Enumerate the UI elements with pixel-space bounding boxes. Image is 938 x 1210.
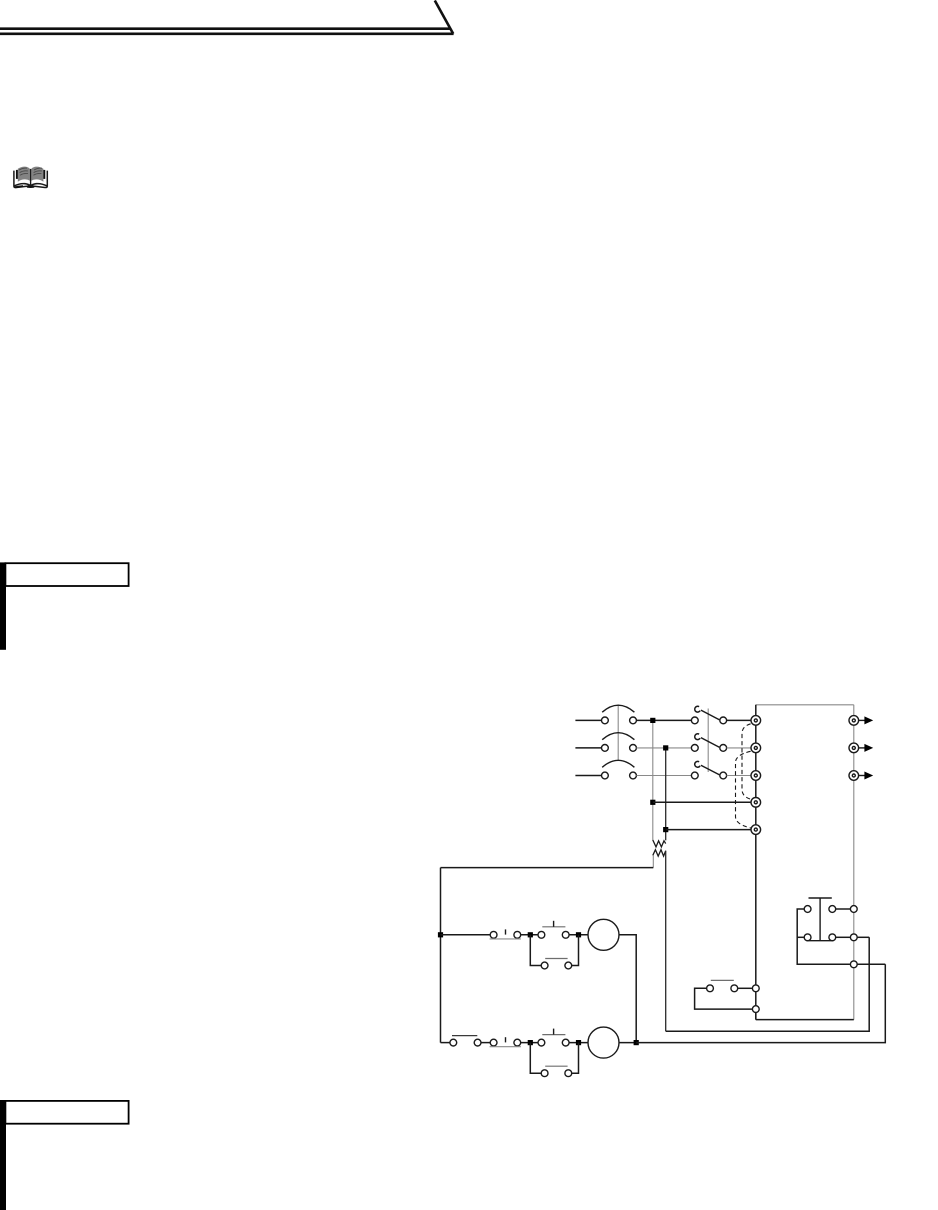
- junction MC1 holding right: [576, 932, 581, 937]
- terminal S1/L21: [751, 825, 761, 835]
- contact MC2-b interlock (upper): [490, 929, 521, 939]
- junction bus A row1: [650, 718, 655, 723]
- output terminal U: [849, 716, 859, 726]
- wire bus A to terminal R1/L11: [653, 801, 751, 803]
- MCCB pole 3: [602, 760, 637, 779]
- junction bus B row5: [663, 827, 668, 832]
- wire CS middle to bus B riser: [857, 936, 869, 938]
- terminal CS middle: [850, 934, 857, 941]
- section heading box 1: [5, 563, 128, 586]
- wire MCCB to MC pole 3: [636, 775, 691, 777]
- MC2 branch corner: [441, 1042, 450, 1044]
- contact MC1 holding: [541, 959, 572, 969]
- header double rule: [0, 29, 454, 34]
- wire selector row2 left: [797, 936, 804, 938]
- MCCB pole 1: [602, 705, 637, 724]
- junction MC1 holding left: [528, 932, 533, 937]
- wire selector common loop: [797, 909, 850, 964]
- wire MC to terminal R/L1: [727, 719, 752, 721]
- selector switch CS actuator: [807, 898, 834, 941]
- inverter box left edge: [755, 705, 757, 1020]
- coil MC1: [588, 919, 619, 950]
- pushbutton start MC2: [538, 1029, 569, 1046]
- MC contact pole 2: [691, 734, 726, 752]
- MC2 holding branch left leg: [530, 1043, 541, 1074]
- junction bus A row4: [650, 800, 655, 805]
- MC contact pole 1: [691, 706, 726, 724]
- wire between lower contacts: [481, 1042, 490, 1044]
- terminal SD: [752, 1006, 759, 1013]
- output arrow V: [858, 744, 873, 752]
- output terminal W: [849, 771, 859, 781]
- MC1 holding branch left leg: [530, 935, 541, 966]
- terminal R1/L11: [751, 798, 761, 808]
- bus B vertical (S1 feed): [665, 748, 667, 840]
- junction bus B row2: [663, 745, 668, 750]
- bus B below twist: [665, 851, 667, 1031]
- MC2 holding branch right leg: [572, 1043, 579, 1074]
- junction MC2 holding right: [576, 1040, 581, 1045]
- terminal CS lower: [850, 961, 857, 968]
- wire MC to terminal T/L3: [727, 775, 752, 777]
- selector switch CS contacts: [804, 906, 836, 941]
- terminal CS upper: [850, 906, 857, 913]
- bus A vertical (R1 feed): [652, 720, 654, 840]
- wire to junction: [521, 934, 538, 936]
- wire bus B to selector middle: [666, 937, 870, 1031]
- junction coils common: [634, 1040, 639, 1045]
- contact MC1-a (lower): [450, 1036, 481, 1046]
- inverter box right edge: [853, 705, 855, 1020]
- wire control feed vertical: [440, 868, 442, 1043]
- wire to MC1 coil: [569, 934, 588, 936]
- section heading bar 2 (black side bar): [0, 1100, 6, 1210]
- wire coils common to CS selector: [636, 964, 885, 1042]
- output terminal V: [849, 743, 859, 753]
- section heading bar 1 (black side bar): [0, 562, 6, 649]
- MC contact pole 3: [691, 761, 726, 779]
- wire CS lower to common riser: [857, 963, 885, 965]
- wire to lower junction: [521, 1042, 538, 1044]
- wire MC2 coil output: [619, 1042, 636, 1044]
- bus A below twist: [652, 855, 654, 867]
- wire MC to terminal S/L2: [727, 747, 752, 749]
- pushbutton start MC1: [538, 921, 569, 938]
- wire MCCB to MC pole 1: [636, 719, 691, 721]
- MCCB linkage: [617, 705, 619, 761]
- inverter box top edge: [756, 704, 854, 706]
- section heading box 2: [5, 1101, 128, 1124]
- twisted wire symbol on bus A/B: [653, 840, 666, 856]
- wire control feed horizontal: [441, 867, 654, 869]
- dashed jumper R to R1: [742, 724, 751, 799]
- phase T input wire: [575, 775, 601, 777]
- wire selector row2 right: [836, 936, 851, 938]
- wire MRS contact to terminal: [738, 987, 753, 989]
- terminal MRS: [752, 985, 759, 992]
- terminal T/L3: [751, 771, 761, 781]
- book icon (open book): [14, 167, 47, 188]
- wire to MC2 coil: [569, 1042, 588, 1044]
- output arrow U: [858, 716, 873, 724]
- MC1 holding branch right leg: [572, 935, 579, 966]
- contact MC2 holding: [541, 1066, 572, 1076]
- wire SD to box corner: [755, 1013, 757, 1020]
- inverter box bottom edge: [756, 1019, 854, 1021]
- header diagonal tab line: [435, 1, 453, 34]
- wire MCCB to MC pole 2: [636, 747, 691, 749]
- contact MC1-b interlock (lower): [490, 1037, 521, 1047]
- junction MC2 holding left: [528, 1040, 533, 1045]
- phase R input wire: [575, 719, 601, 721]
- phase S input wire: [575, 747, 601, 749]
- wire MRS contact loop: [695, 988, 753, 1009]
- junction control feed MC1: [438, 932, 443, 937]
- output arrow W: [858, 772, 873, 780]
- terminal S/L2: [751, 743, 761, 753]
- contact MRS external: [707, 980, 738, 991]
- wire bus B to terminal S1/L21: [666, 829, 752, 831]
- wire MC1 coil output: [619, 935, 636, 1043]
- MC1 branch wire: [441, 934, 491, 936]
- coil MC2: [588, 1027, 619, 1058]
- MCCB pole 2: [602, 733, 637, 752]
- dashed jumper S to S1: [736, 751, 751, 828]
- MC linkage: [707, 709, 709, 773]
- terminal R/L1: [751, 716, 761, 726]
- wire selector row1 right: [836, 908, 851, 910]
